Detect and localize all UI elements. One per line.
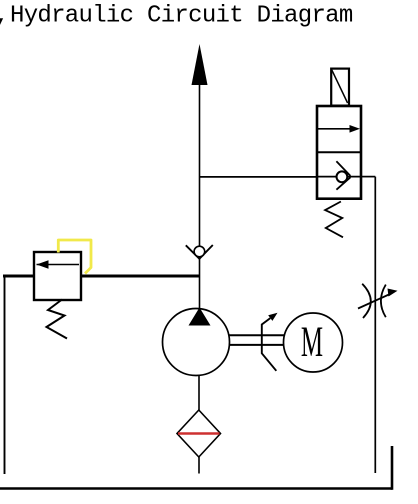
check valve C1	[186, 245, 213, 259]
relief valve V1 body	[34, 252, 81, 300]
title text	[10, 3, 353, 30]
relief valve flow arrow	[37, 260, 80, 268]
tank line	[0, 487, 392, 490]
relief valve spring	[47, 300, 68, 339]
wire: pilot line to solenoid valve	[200, 176, 318, 178]
pump P1	[163, 308, 230, 376]
wire: right drop line	[374, 177, 376, 473]
drive shaft (double line)	[229, 335, 285, 345]
throttle valve T1	[362, 284, 386, 318]
valve return spring	[325, 202, 343, 238]
flow direction arrow (to system)	[192, 44, 208, 85]
filter F1	[177, 410, 221, 457]
svg-text:,: ,	[0, 3, 9, 30]
variable displacement arrow	[262, 313, 278, 371]
pilot line (yellow)	[58, 240, 91, 274]
wire: pump outlet vertical line	[199, 84, 201, 308]
svg-text:M: M	[301, 318, 323, 366]
valve check position port line	[317, 176, 361, 178]
tank right wall	[391, 446, 394, 490]
solenoid coil	[331, 69, 349, 106]
throttle adjust arrow	[358, 289, 398, 309]
solenoid valve U1 body	[317, 106, 361, 199]
wire: pressure line (thick)	[3, 275, 200, 278]
wire: valve outlet to right drop	[361, 176, 375, 178]
motor M1	[284, 313, 343, 372]
valve check position ball and seat	[336, 161, 350, 189]
wire: left return line	[4, 275, 6, 474]
wire: filter to tank	[198, 457, 200, 474]
wire: pump suction line	[198, 376, 200, 411]
valve open flow path arrow	[317, 125, 360, 133]
title comma	[0, 3, 9, 30]
svg-text:Hydraulic Circuit Diagram: Hydraulic Circuit Diagram	[10, 3, 353, 30]
